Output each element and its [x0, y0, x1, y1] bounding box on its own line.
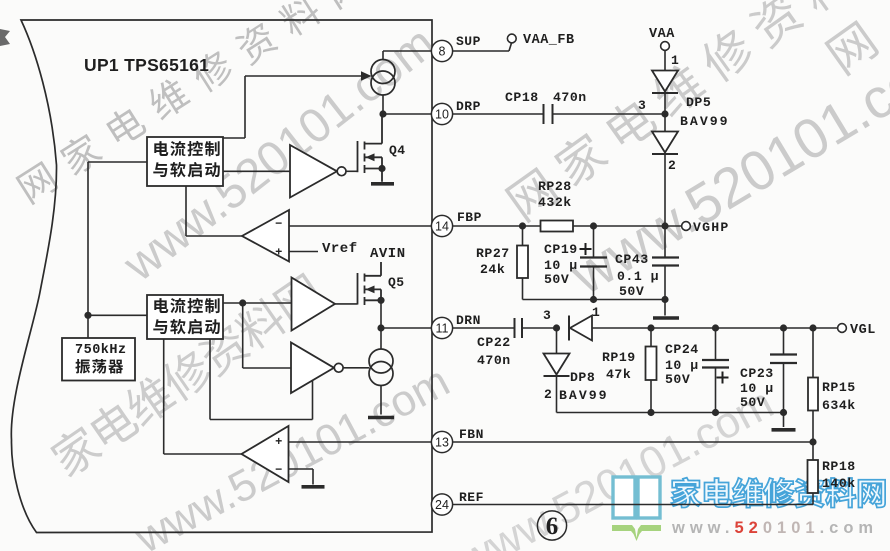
svg-text:Vref: Vref — [322, 241, 358, 257]
wire box2 to buffer U1C — [223, 302, 292, 304]
svg-text:47k: 47k — [606, 367, 631, 382]
svg-text:DP5: DP5 — [686, 95, 711, 110]
svg-text:1: 1 — [592, 305, 600, 320]
wire U1A to Q4 gate — [346, 170, 358, 172]
capacitor CP22 — [515, 318, 523, 338]
wire U1B plus to Vref — [289, 251, 318, 253]
junction CP24 bottom — [712, 409, 719, 416]
wire U1B out — [186, 235, 242, 237]
junction Q4 source — [378, 165, 385, 172]
wire control to I1 with arrow — [245, 75, 361, 77]
svg-text:6: 6 — [546, 513, 559, 540]
comparator U1E (FBN) — [242, 426, 289, 482]
resistor RP27 — [517, 246, 528, 279]
svg-text:+: + — [275, 435, 283, 449]
CP24 plus sign — [717, 372, 729, 384]
svg-text:DRP: DRP — [456, 99, 481, 114]
resistor RP28 — [541, 221, 574, 232]
svg-text:140k: 140k — [822, 476, 856, 491]
wire U1C to Q5 gate — [335, 303, 358, 305]
junction CP24 top — [712, 324, 719, 331]
wire VGHP filter bottom rail — [523, 299, 666, 301]
diode DP5-2 — [652, 132, 678, 153]
wire RP27 top lead — [522, 226, 524, 246]
junction CP19 bottom — [590, 296, 597, 303]
junction CP23 top — [780, 324, 787, 331]
pin 10 DRP — [431, 103, 452, 124]
junction node3 bottom — [553, 324, 560, 331]
svg-text:AVIN: AVIN — [370, 246, 406, 262]
logo text 家电维修资料网 — [671, 478, 885, 508]
svg-text:0.1 μ: 0.1 μ — [617, 269, 659, 284]
svg-text:−: − — [275, 463, 283, 477]
pin 14 FBP — [431, 215, 452, 236]
wire CP19 bottom lead — [593, 267, 595, 300]
wire RP15 bottom lead — [812, 411, 814, 443]
svg-text:RP28: RP28 — [538, 179, 572, 194]
DP5-1 cathode bar — [652, 92, 678, 94]
svg-text:VGHP: VGHP — [693, 220, 729, 235]
svg-text:11: 11 — [436, 321, 449, 335]
ground CP23 — [772, 428, 796, 432]
wire U1E out — [164, 453, 242, 455]
wire loop bottom — [210, 419, 313, 421]
wire U1E minus down — [312, 469, 314, 485]
wire FBN pin13 to U1E plus — [289, 441, 432, 443]
wire RP18 top lead — [812, 442, 814, 460]
svg-text:Q4: Q4 — [389, 143, 406, 158]
svg-text:RP19: RP19 — [602, 350, 636, 365]
junction CP43 bottom — [661, 296, 668, 303]
junction RP19 top — [647, 324, 654, 331]
svg-text:10 μ: 10 μ — [665, 358, 699, 373]
watermark CJK bottom-left — [47, 270, 326, 480]
svg-text:750kHz: 750kHz — [75, 343, 127, 358]
wire RP19 top lead — [650, 328, 652, 347]
bubble U1D — [334, 363, 343, 372]
wire trunk to box2 — [88, 314, 147, 316]
svg-text:−: − — [275, 217, 283, 231]
svg-text:SUP: SUP — [456, 34, 481, 49]
terminal VAA — [661, 42, 670, 51]
wire CP24 top lead — [715, 328, 717, 360]
junction box2 out — [239, 299, 246, 306]
wire branch down — [242, 303, 244, 368]
svg-text:CP18: CP18 — [505, 90, 539, 105]
wire to VGHP terminal — [665, 225, 682, 227]
svg-text:CP23: CP23 — [740, 366, 774, 381]
wire U1B out up to box1 — [185, 186, 187, 236]
text 与软启动 box2 — [153, 319, 220, 334]
wire CP43 bottom lead — [664, 266, 666, 316]
buffer U1C — [292, 278, 336, 331]
capacitor CP24 — [702, 360, 729, 368]
svg-text:470n: 470n — [553, 90, 587, 105]
junction CP19 top — [590, 222, 597, 229]
wire FBP pin14 to U1B minus — [289, 225, 432, 227]
wire node3 to DP8-2 — [556, 328, 558, 354]
wire CP23 bottom lead to ground — [783, 363, 785, 427]
svg-text:BAV99: BAV99 — [559, 388, 609, 403]
svg-text:CP24: CP24 — [665, 342, 699, 357]
svg-text:432k: 432k — [538, 195, 572, 210]
wire RP18 bottom lead — [812, 493, 814, 505]
svg-text:3: 3 — [638, 98, 646, 113]
current source I2 — [369, 349, 393, 386]
resistor RP18 — [808, 460, 819, 493]
wire REF pin24 to RP18 — [453, 504, 813, 506]
svg-text:50V: 50V — [544, 272, 569, 287]
wire down to control box 1 — [244, 76, 246, 138]
text 与软启动 box1 — [153, 162, 220, 177]
wire VGL rail — [592, 327, 838, 329]
svg-text:10 μ: 10 μ — [544, 258, 578, 273]
transistor Q4 — [358, 114, 383, 182]
svg-text:REF: REF — [459, 490, 484, 505]
svg-text:CP43: CP43 — [615, 252, 649, 267]
svg-text:24k: 24k — [480, 262, 505, 277]
terminal VGL — [838, 324, 847, 333]
junction VGHP node — [661, 222, 668, 229]
junction CP23 rail crossing — [780, 409, 787, 416]
wire I1 top — [382, 51, 384, 60]
svg-text:Q5: Q5 — [388, 275, 405, 290]
wire VAA_FB riser — [509, 43, 512, 51]
bubble U1A — [337, 167, 346, 176]
Q4 body arrow — [366, 153, 375, 161]
wire VGL filter bottom rail — [557, 412, 784, 414]
wire DP8-2 to bottom rail — [556, 376, 558, 413]
junction RP15 top — [809, 324, 816, 331]
svg-text:RP18: RP18 — [822, 459, 856, 474]
transistor Q5 — [358, 262, 382, 305]
watermark CJK top-right — [502, 0, 890, 224]
ground Q4 source — [371, 182, 394, 186]
svg-text:DRN: DRN — [456, 313, 481, 328]
ground CP43 — [653, 316, 679, 320]
resistor RP19 — [646, 347, 657, 381]
svg-text:13: 13 — [435, 435, 449, 449]
wire VAA to DP5-1 — [664, 51, 666, 71]
text 电流控制 box1 — [154, 141, 219, 156]
junction Q5 source — [377, 297, 384, 304]
junction FBN divider — [809, 438, 816, 445]
svg-text:VGL: VGL — [850, 323, 876, 338]
wire FBN pin13 to divider — [453, 441, 813, 443]
terminal VGHP — [682, 222, 691, 231]
wire CP22 to node3 bottom — [522, 327, 557, 329]
wire DRN node to pin11 — [381, 327, 432, 329]
comparator U1B (FBP) — [242, 210, 289, 262]
wire pin11 to CP22 — [453, 327, 515, 329]
resistor RP15 — [808, 378, 818, 411]
wire DP5-1 to node3 — [664, 93, 666, 114]
wire RP27 bottom lead — [522, 278, 524, 300]
DP5-2 cathode bar — [652, 153, 678, 155]
ground U1E minus — [302, 485, 325, 489]
svg-text:50V: 50V — [665, 372, 690, 387]
wire to inverter U1D — [243, 367, 291, 369]
capacitor CP18 — [544, 104, 553, 124]
control box 2 — [147, 295, 223, 339]
svg-text:www.520101.com: www.520101.com — [671, 519, 878, 537]
svg-text:14: 14 — [435, 219, 449, 233]
wire I1 bottom to DRP node — [382, 95, 384, 114]
wire trunk vertical — [87, 162, 89, 338]
svg-text:UP1 TPS65161: UP1 TPS65161 — [84, 55, 209, 75]
arrowhead into I1 — [361, 71, 372, 80]
svg-text:CP22: CP22 — [477, 335, 511, 350]
svg-text:BAV99: BAV99 — [680, 114, 730, 129]
wire trunk to box1 — [88, 161, 147, 163]
wire box1 to buffer U1A — [223, 170, 290, 172]
ground I2 — [368, 416, 394, 420]
svg-text:VAA_FB: VAA_FB — [523, 33, 575, 48]
control box 1 — [147, 137, 223, 186]
wire U1E out up to box2 — [163, 339, 165, 454]
junction DRP node — [379, 110, 386, 117]
svg-text:CP19: CP19 — [544, 242, 578, 257]
current source I1 — [371, 60, 395, 96]
junction trunk — [84, 312, 91, 319]
junction DRN node — [377, 324, 384, 331]
text 振荡器 — [75, 359, 123, 374]
logo book underline — [612, 525, 661, 541]
svg-text:634k: 634k — [822, 398, 856, 413]
svg-text:3: 3 — [543, 308, 551, 323]
scan mark top-left — [0, 29, 10, 46]
svg-text:50V: 50V — [740, 395, 765, 410]
terminal VAA_FB — [507, 34, 516, 43]
wire pin10 to CP18 — [453, 113, 544, 115]
svg-text:1: 1 — [671, 53, 679, 68]
pin 24 REF — [431, 494, 452, 515]
logo book icon — [613, 477, 660, 518]
diode DP5-1 — [652, 71, 678, 92]
wire I2 to ground — [380, 386, 382, 415]
junction RP27/RP28 — [519, 222, 526, 229]
svg-text:8: 8 — [439, 44, 446, 58]
IC UP1 boundary — [11, 20, 432, 533]
DP8-2 cathode bar — [544, 375, 570, 377]
wire RP19 bottom lead — [650, 380, 652, 413]
wire into control box 1 top — [223, 137, 245, 139]
circled number 6 — [537, 511, 566, 540]
wire CP43 top lead — [664, 226, 666, 258]
text 电流控制 box2 — [154, 298, 219, 313]
junction node3 top — [661, 110, 668, 117]
svg-text:24: 24 — [435, 498, 449, 512]
diode DP8-2 — [544, 354, 570, 375]
svg-text:FBP: FBP — [457, 210, 482, 225]
svg-text:+: + — [275, 246, 283, 260]
oscillator box 750kHz — [62, 338, 135, 381]
wire pin8 to VAA_FB — [453, 50, 509, 52]
Q5 body arrow — [366, 286, 375, 294]
wire pin14 to RP28 — [453, 225, 541, 227]
svg-text:RP27: RP27 — [476, 246, 510, 261]
svg-text:DP8: DP8 — [570, 370, 595, 385]
pin 11 DRN — [431, 317, 452, 338]
svg-text:VAA: VAA — [649, 27, 675, 42]
wire U1E minus — [289, 468, 314, 470]
capacitor CP23 — [770, 355, 797, 364]
wire RP28 to VGHP node — [573, 225, 665, 227]
svg-text:2: 2 — [544, 387, 552, 402]
wire CP24 bottom lead — [715, 368, 717, 413]
wire U1D to I2 — [343, 367, 369, 369]
wire pin8 to current source I1 — [383, 50, 432, 52]
svg-text:FBN: FBN — [459, 427, 484, 442]
wire DRP node to pin10 — [383, 113, 432, 115]
buffer U1A — [290, 145, 337, 198]
pin 8 SUP — [431, 40, 452, 61]
svg-text:10: 10 — [435, 107, 449, 121]
watermark CJK wang corner — [824, 20, 880, 77]
wire RP15 top lead — [812, 328, 814, 378]
wire CP18 to node3 top — [553, 113, 666, 115]
watermark CJK top-left — [14, 0, 367, 205]
svg-text:50V: 50V — [619, 284, 644, 299]
DP8-1 cathode bar — [568, 316, 570, 341]
svg-text:470n: 470n — [477, 353, 511, 368]
capacitor CP43 — [652, 258, 679, 266]
junction RP19 bottom — [647, 409, 654, 416]
wire node3 to DP5-2 — [664, 114, 666, 132]
capacitor CP19 — [580, 258, 607, 267]
CP19 plus sign — [580, 243, 592, 255]
wire DP5-2 to VGHP rail — [664, 154, 666, 226]
svg-text:10 μ: 10 μ — [740, 381, 774, 396]
wire CP23 top lead — [783, 328, 785, 355]
pin 13 FBN — [431, 431, 452, 452]
inverter U1D — [291, 343, 334, 394]
svg-text:RP15: RP15 — [822, 380, 856, 395]
wire CP19 top lead — [593, 226, 595, 258]
wire loop up to U1D — [312, 381, 314, 420]
wire Q5 source to I2 — [380, 300, 382, 349]
svg-text:2: 2 — [668, 158, 676, 173]
wire box2 bottom loop down — [209, 339, 211, 420]
